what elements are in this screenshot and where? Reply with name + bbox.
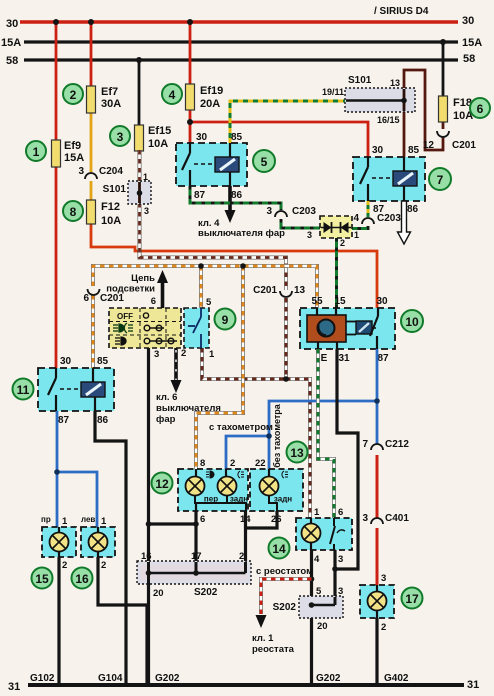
fuse Ef19 <box>186 84 224 110</box>
svg-text:5: 5 <box>261 155 268 169</box>
wire: Ef7 to C204 to F12 (yellow) <box>90 107 93 201</box>
circle label 3 <box>110 126 130 146</box>
connector C201 pin6 <box>83 289 124 304</box>
connector C203 pin3 <box>266 206 316 217</box>
svg-text:19/11: 19/11 <box>322 87 344 97</box>
svg-text:C203: C203 <box>292 206 316 217</box>
svg-text:S202: S202 <box>273 602 297 613</box>
fuse Ef15 <box>135 125 172 151</box>
circle label 12 <box>152 473 173 494</box>
connector C212 pin7 <box>362 439 409 450</box>
svg-text:6: 6 <box>200 514 205 525</box>
splice S202 (left) <box>137 551 251 599</box>
bus 30 <box>6 15 474 30</box>
svg-text:85: 85 <box>231 132 243 143</box>
wire: relay5 pin87 to C203 pin3 to diode box (green-black striped) <box>190 186 320 228</box>
circle label 16 <box>72 568 93 589</box>
illumination net: C201 pin6 to relay11 pin85 / switch pin5 / lamp12 pin8 / relay10 pin55 (orange-white striped) <box>93 263 317 469</box>
diode box <box>307 216 359 248</box>
svg-text:C204: C204 <box>99 166 123 177</box>
fuse Ef9 <box>52 140 85 167</box>
svg-text:кл. 1: кл. 1 <box>252 633 274 644</box>
svg-text:6: 6 <box>477 102 484 116</box>
svg-text:3: 3 <box>362 513 368 524</box>
wire: Ef19 to junction to relay5 pin30 (red) <box>189 107 192 144</box>
svg-text:30: 30 <box>372 145 384 156</box>
svg-text:5: 5 <box>316 586 322 597</box>
svg-text:G402: G402 <box>384 673 409 684</box>
svg-text:2: 2 <box>340 238 345 248</box>
svg-text:C212: C212 <box>385 439 409 450</box>
svg-text:30: 30 <box>60 356 72 367</box>
svg-text:13: 13 <box>294 285 306 296</box>
svg-text:2: 2 <box>62 560 67 571</box>
relay 5 (headlight relay) <box>176 132 247 201</box>
svg-text:58: 58 <box>463 53 475 65</box>
bus 58 <box>6 53 475 67</box>
svg-text:15: 15 <box>35 572 49 586</box>
svg-text:кл. 6: кл. 6 <box>156 392 177 403</box>
svg-text:задн: задн <box>230 495 248 504</box>
wire: lamp12 pin6 to S202 pin17 (black) <box>193 511 199 562</box>
svg-text:1: 1 <box>354 230 359 240</box>
wire: lamp15 pin2 to ground G102 (black) <box>57 557 60 685</box>
fuse F18 <box>439 96 474 122</box>
svg-text:3: 3 <box>381 573 386 584</box>
svg-text:2: 2 <box>230 458 235 469</box>
lamp 15 (right front position lamp) <box>41 515 76 571</box>
junction dots on buses <box>53 19 446 125</box>
lamp 17 (rheostat lamp) <box>360 573 394 633</box>
svg-text:выключателя: выключателя <box>156 403 221 414</box>
circle label 1 <box>26 141 46 161</box>
wire: junction to relay7 pin30 (red) <box>190 122 368 158</box>
splice S101 (left) <box>103 172 151 216</box>
svg-text:16/15: 16/15 <box>377 115 400 125</box>
svg-text:2: 2 <box>239 551 244 562</box>
svg-text:12: 12 <box>155 477 169 491</box>
svg-text:16: 16 <box>141 551 152 562</box>
svg-text:15A: 15A <box>1 37 21 49</box>
svg-text:пер: пер <box>204 495 218 504</box>
svg-text:G202: G202 <box>316 673 341 684</box>
svg-text:3: 3 <box>307 230 312 240</box>
svg-text:13: 13 <box>290 446 304 460</box>
svg-text:1: 1 <box>209 349 215 360</box>
svg-text:9: 9 <box>222 313 229 327</box>
svg-text:30: 30 <box>196 132 208 143</box>
svg-text:фар: фар <box>156 414 176 425</box>
circle label 7 <box>429 168 451 190</box>
wire: bus30 to Ef9 to relay11 pin30 (red) <box>55 22 58 368</box>
wire: C212 to C401 to lamp17 pin3 (red) <box>376 455 379 585</box>
wire: bus30 to Ef19 (red) <box>189 22 192 85</box>
wire: Ef15 to S101 splice (brown-white striped) <box>138 150 142 182</box>
wire: relay11 pin86 to ground G104 (black) <box>95 411 126 685</box>
svg-text:лев: лев <box>81 515 95 524</box>
svg-text:G104: G104 <box>98 673 123 684</box>
svg-text:3: 3 <box>154 349 159 360</box>
wire: bus58 to Ef15 (black) <box>138 60 141 126</box>
svg-text:30A: 30A <box>101 98 121 110</box>
svg-text:20: 20 <box>153 588 164 599</box>
svg-text:58: 58 <box>6 55 18 67</box>
svg-text:11: 11 <box>17 383 30 397</box>
svg-text:2: 2 <box>181 348 186 359</box>
connector C401 pin3 <box>362 513 409 524</box>
circle label 17 <box>402 588 423 609</box>
circle label 9 <box>215 309 236 330</box>
svg-text:17: 17 <box>191 551 202 562</box>
svg-text:87: 87 <box>377 353 389 364</box>
svg-text:3: 3 <box>266 206 272 217</box>
svg-text:85: 85 <box>408 145 420 156</box>
svg-text:4: 4 <box>314 554 320 565</box>
fuse Ef7 <box>87 86 122 113</box>
svg-text:10A: 10A <box>101 215 121 227</box>
circle label 2 <box>63 84 83 104</box>
svg-text:1: 1 <box>314 507 320 518</box>
svg-text:1: 1 <box>143 172 148 182</box>
svg-text:5: 5 <box>206 297 212 308</box>
wire: bus15A to F18 (black) <box>442 42 445 97</box>
circle label 8 <box>63 201 83 221</box>
wire: F18 to C201 pin12 to S101 pin13 to relay7 pin85 (brown) <box>404 70 443 158</box>
svg-text:Ef19: Ef19 <box>200 85 223 97</box>
circle label 10 <box>401 310 423 332</box>
svg-text:22: 22 <box>255 458 266 469</box>
svg-text:2: 2 <box>101 560 106 571</box>
connector C204 pin3 <box>78 166 123 179</box>
svg-text:с тахометром: с тахометром <box>209 422 273 433</box>
svg-text:6: 6 <box>83 293 89 304</box>
lamp 14 (glovebox / switch lamp) <box>296 507 352 565</box>
svg-text:87: 87 <box>194 190 206 201</box>
svg-text:86: 86 <box>97 415 109 426</box>
wire: relay5 pin85 to S101 19/11 (green-yellow striped) <box>230 101 346 143</box>
svg-text:Ef15: Ef15 <box>148 125 171 137</box>
svg-text:4: 4 <box>169 88 176 102</box>
svg-text:2: 2 <box>70 88 77 102</box>
svg-text:3: 3 <box>338 554 343 565</box>
svg-text:S101: S101 <box>103 184 127 195</box>
wire: S202 pin20 to ground G202 (black) <box>147 584 150 685</box>
circle label 6 <box>470 98 490 118</box>
wire: relay11 pin87 to lamps 15 and 16 (blue) <box>54 411 97 528</box>
wire: light switch pin1 to brown-white net (brown-white striped) <box>202 348 289 382</box>
wire: relay10 pin E to lamp14 pin6 (green-white striped) <box>318 349 334 518</box>
pin labels lamp12 <box>200 458 251 525</box>
wire: to rheostat terminal 1 (red-white striped with arrow) <box>252 566 313 655</box>
svg-text:3: 3 <box>117 130 124 144</box>
svg-text:20A: 20A <box>200 98 220 110</box>
wire: F12 to relay10 pin30 (red-orange long run) <box>91 223 377 308</box>
circle label 14 <box>269 538 290 559</box>
circle label 13 <box>287 442 308 463</box>
svg-text:3: 3 <box>144 206 149 216</box>
svg-text:31: 31 <box>467 679 479 691</box>
light switch unit 9 <box>109 296 215 360</box>
wire: lamp17 pin2 to ground G402 (black) <box>375 618 378 685</box>
svg-text:6: 6 <box>151 296 156 307</box>
svg-text:85: 85 <box>97 356 109 367</box>
svg-text:3: 3 <box>338 586 343 597</box>
svg-text:17: 17 <box>405 592 419 606</box>
connector C203 pin4 <box>353 213 401 224</box>
svg-text:1: 1 <box>62 516 68 527</box>
lamp 16 (left front position lamp) <box>81 515 115 571</box>
svg-text:C201: C201 <box>100 293 124 304</box>
svg-text:86: 86 <box>407 204 419 215</box>
svg-text:15A: 15A <box>462 37 482 49</box>
wire: switch pin3 to S202 pin16 (black) <box>146 348 196 562</box>
svg-text:55: 55 <box>311 296 323 307</box>
label: illumination circuit with up arrow <box>106 270 168 308</box>
wire: bus30 to Ef7 (red) <box>90 22 93 87</box>
svg-text:31: 31 <box>338 353 350 364</box>
svg-text:87: 87 <box>58 415 70 426</box>
svg-text:8: 8 <box>70 205 77 219</box>
svg-text:Цепь: Цепь <box>131 273 155 284</box>
circle label 11 <box>13 379 34 400</box>
svg-text:8: 8 <box>200 458 205 469</box>
circle label 15 <box>32 568 53 589</box>
svg-text:15A: 15A <box>64 152 84 164</box>
svg-text:31: 31 <box>8 681 20 693</box>
svg-text:14: 14 <box>272 542 286 556</box>
lamp cluster 13 (rear position lamp) <box>250 458 303 525</box>
circle label 5 <box>253 150 275 172</box>
svg-text:реостата: реостата <box>252 644 295 655</box>
wire: relay10 pin87 to C212 and tail lamps (blue) <box>226 349 380 469</box>
wire: relay7 pin87 to C203 pin4 to diode box (green-black striped) <box>352 201 368 229</box>
svg-text:16: 16 <box>75 572 89 586</box>
svg-text:13: 13 <box>390 78 400 88</box>
relay 11 (parking lamp relay) <box>38 356 114 426</box>
connector C201 pin12 <box>423 131 476 151</box>
connector block S101 (right) <box>322 75 415 125</box>
svg-text:7: 7 <box>437 173 444 187</box>
svg-text:/ SIRIUS D4: / SIRIUS D4 <box>374 6 429 17</box>
svg-text:15: 15 <box>334 296 346 307</box>
wire: lamp14 pin4 to S202 pin5/20 and ground G202 (black) <box>309 550 315 685</box>
connector C201 pin13 <box>253 285 305 297</box>
relay 7 (relay) <box>353 145 425 215</box>
arrow: relay7 pin86 output (white arrow) <box>398 201 411 244</box>
svg-text:G202: G202 <box>155 673 180 684</box>
svg-text:10A: 10A <box>148 138 168 150</box>
svg-text:без тахометра: без тахометра <box>272 403 282 468</box>
svg-text:12: 12 <box>423 140 435 151</box>
circle label 4 <box>162 84 182 104</box>
wire: lamp12 pin14 / lamp13 pin26 to S202 pin2 (black) <box>246 511 278 562</box>
wire: lamp16 pin2 to ground (black) <box>98 557 147 685</box>
relay 10 ignition-light switch unit <box>300 296 395 364</box>
svg-text:с реостатом: с реостатом <box>256 566 313 577</box>
svg-text:S101: S101 <box>348 75 372 86</box>
wire: S101 splice pin3 down and right to C201 pin13 and lamp14 pin1 (brown-white striped) <box>140 203 311 518</box>
wire: relay10 pin31 to lamp14 pin3 and S202 pin3 (black) <box>332 349 358 597</box>
svg-text:выключателя фар: выключателя фар <box>198 228 285 239</box>
svg-text:20: 20 <box>317 621 328 632</box>
svg-text:3: 3 <box>78 166 84 177</box>
svg-text:Ef9: Ef9 <box>64 140 81 152</box>
svg-text:OFF: OFF <box>117 312 133 321</box>
svg-text:E: E <box>321 353 328 364</box>
svg-text:подсветки: подсветки <box>106 284 155 295</box>
svg-text:2: 2 <box>381 622 386 633</box>
lamp cluster 12 (front and rear position lamps) <box>178 469 248 511</box>
svg-text:4: 4 <box>353 213 359 224</box>
svg-text:7: 7 <box>362 439 368 450</box>
svg-text:задн: задн <box>274 495 292 504</box>
svg-text:1: 1 <box>101 516 107 527</box>
splice S202 (right) <box>273 586 344 632</box>
arrow: relay5 pin86 to terminal 4 of headlight switch <box>198 186 285 239</box>
svg-text:1: 1 <box>33 145 40 159</box>
svg-text:C201: C201 <box>452 140 476 151</box>
svg-text:6: 6 <box>338 507 343 518</box>
svg-text:C203: C203 <box>377 213 401 224</box>
svg-text:86: 86 <box>231 190 243 201</box>
svg-text:30: 30 <box>462 15 474 27</box>
svg-text:G102: G102 <box>30 673 55 684</box>
arrow: switch pin2 to terminal 6 of headlight switch <box>156 348 221 425</box>
fuse F12 <box>87 200 122 227</box>
svg-text:C201: C201 <box>253 285 277 296</box>
bus 15A <box>1 37 482 49</box>
svg-text:30: 30 <box>6 18 18 30</box>
svg-text:C401: C401 <box>385 513 409 524</box>
bus 31 (bottom ground bus) <box>8 679 479 693</box>
svg-text:30: 30 <box>376 296 388 307</box>
svg-text:пр: пр <box>41 515 51 524</box>
svg-text:10: 10 <box>405 315 419 329</box>
svg-text:Ef7: Ef7 <box>101 86 118 98</box>
svg-text:F12: F12 <box>101 201 120 213</box>
svg-text:S202: S202 <box>194 587 218 598</box>
wire: diode box pin2 to relay10 pin15 (green-black striped) <box>335 238 338 308</box>
